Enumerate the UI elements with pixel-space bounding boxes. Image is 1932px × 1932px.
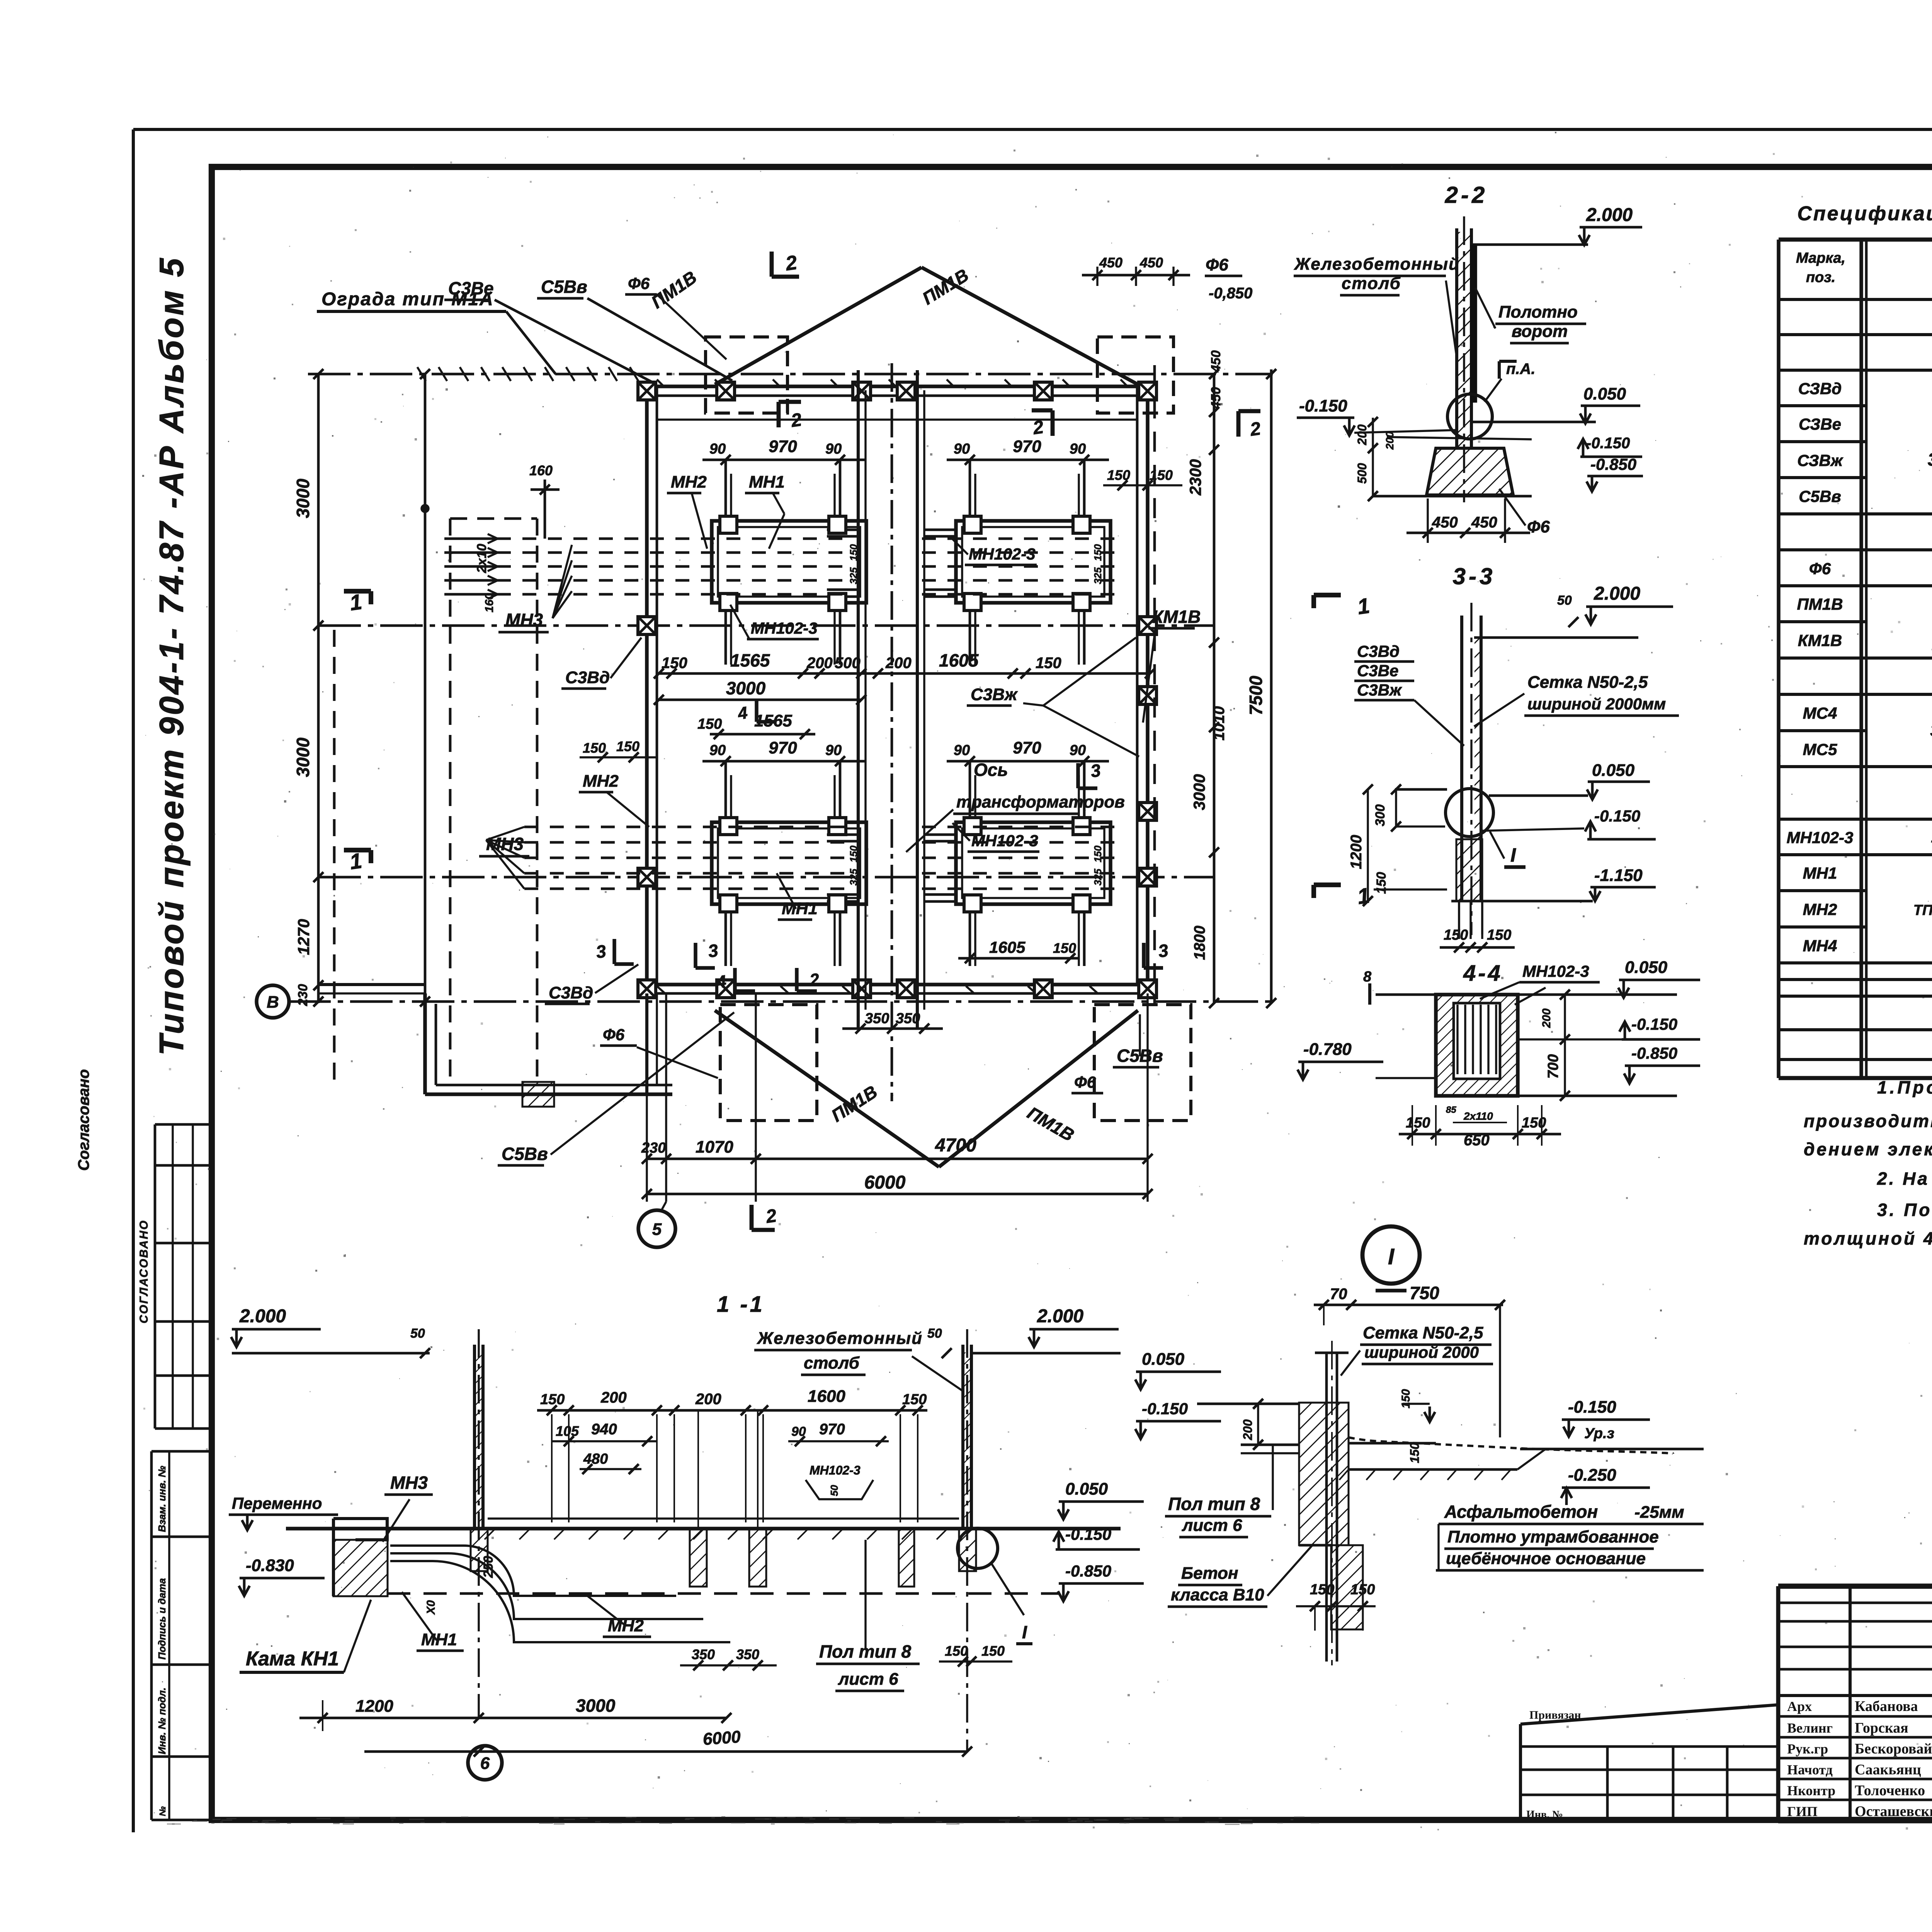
- svg-text:Толоченко: Толоченко: [1855, 1782, 1925, 1799]
- svg-text:160: 160: [529, 463, 553, 478]
- svg-text:МН2: МН2: [671, 473, 707, 492]
- svg-text:3: 3: [1157, 940, 1170, 961]
- svg-text:3000: 3000: [576, 1696, 616, 1716]
- svg-text:150: 150: [1400, 1389, 1412, 1408]
- svg-text:2: 2: [784, 251, 799, 275]
- svg-text:150: 150: [1350, 1582, 1375, 1598]
- svg-text:1: 1: [1356, 593, 1371, 619]
- svg-text:С3Ве: С3Ве: [1357, 662, 1398, 680]
- svg-text:2х10: 2х10: [474, 544, 489, 573]
- svg-text:-1.150: -1.150: [1594, 866, 1643, 885]
- svg-text:90: 90: [954, 441, 970, 457]
- svg-text:3000: 3000: [293, 478, 313, 518]
- svg-text:150: 150: [848, 544, 859, 561]
- svg-text:МН102-3: МН102-3: [1787, 828, 1854, 847]
- svg-text:200: 200: [600, 1389, 627, 1406]
- svg-text:200: 200: [1540, 1009, 1553, 1028]
- svg-text:Инв. № подл.: Инв. № подл.: [156, 1687, 168, 1754]
- svg-text:С3Вж: С3Вж: [971, 685, 1018, 704]
- svg-text:В: В: [267, 993, 279, 1012]
- svg-text:столб: столб: [804, 1354, 860, 1372]
- svg-text:350: 350: [865, 1010, 889, 1027]
- svg-text:0.050: 0.050: [1592, 761, 1635, 780]
- svg-text:1270: 1270: [294, 919, 313, 955]
- svg-text:150: 150: [1406, 1115, 1430, 1131]
- svg-text:90: 90: [1070, 742, 1086, 759]
- svg-text:Согласовано: Согласовано: [75, 1069, 92, 1171]
- svg-text:50: 50: [828, 1485, 840, 1496]
- svg-text:1010: 1010: [1211, 706, 1228, 741]
- svg-text:ПМ1В: ПМ1В: [1797, 595, 1843, 613]
- svg-text:Ф6: Ф6: [603, 1026, 625, 1044]
- svg-text:150: 150: [1444, 927, 1468, 943]
- svg-text:970: 970: [1013, 738, 1041, 757]
- svg-text:С5Вв: С5Вв: [502, 1144, 548, 1164]
- svg-text:Спецификация элементов к тр: Спецификация элементов к трансформаторно…: [1797, 202, 1932, 225]
- svg-text:940: 940: [591, 1421, 617, 1438]
- svg-text:Ось: Ось: [974, 760, 1008, 780]
- svg-text:50: 50: [1557, 593, 1572, 608]
- svg-text:класса В10: класса В10: [1171, 1585, 1264, 1604]
- svg-text:МС4: МС4: [1803, 704, 1837, 722]
- svg-text:3: 3: [707, 940, 719, 961]
- svg-text:90: 90: [825, 742, 842, 759]
- svg-text:4700: 4700: [935, 1135, 976, 1156]
- svg-text:-0.150: -0.150: [1568, 1398, 1616, 1417]
- svg-text:200: 200: [806, 655, 833, 672]
- svg-text:2.000: 2.000: [1037, 1306, 1083, 1327]
- svg-text:105: 105: [556, 1423, 579, 1439]
- svg-text:650: 650: [1464, 1132, 1490, 1149]
- svg-text:Кабанова: Кабанова: [1855, 1698, 1918, 1714]
- svg-text:Железобетонный: Железобетонный: [1294, 255, 1460, 274]
- svg-text:1565: 1565: [730, 650, 770, 670]
- svg-text:0.050: 0.050: [1142, 1350, 1185, 1369]
- svg-text:1200: 1200: [355, 1697, 393, 1716]
- svg-text:-0.830: -0.830: [246, 1556, 294, 1575]
- svg-text:Ф6: Ф6: [1206, 255, 1228, 274]
- svg-text:ГИП: ГИП: [1787, 1804, 1818, 1819]
- svg-text:-0.850: -0.850: [1590, 455, 1636, 473]
- svg-text:90: 90: [709, 441, 726, 457]
- svg-text:150: 150: [1036, 655, 1061, 672]
- svg-text:3: 3: [1089, 760, 1102, 781]
- svg-text:СЗВж: СЗВж: [1797, 451, 1844, 469]
- svg-text:970: 970: [769, 437, 797, 456]
- svg-text:МН2: МН2: [1803, 900, 1837, 918]
- svg-text:МН3: МН3: [486, 834, 524, 854]
- svg-text:С5Вв: С5Вв: [1799, 487, 1841, 505]
- svg-text:Сетка N50-2,5: Сетка N50-2,5: [1363, 1323, 1483, 1342]
- svg-text:2.000: 2.000: [1594, 583, 1640, 604]
- svg-text:6000: 6000: [702, 1727, 742, 1749]
- svg-text:970: 970: [1013, 437, 1041, 456]
- svg-text:150: 150: [1310, 1582, 1334, 1598]
- svg-text:МН102-3: МН102-3: [810, 1463, 861, 1477]
- svg-text:-25мм: -25мм: [1634, 1503, 1684, 1522]
- svg-text:МН1: МН1: [1803, 864, 1837, 882]
- svg-text:I: I: [1022, 1622, 1027, 1642]
- svg-text:350: 350: [692, 1646, 715, 1662]
- svg-text:2.000: 2.000: [1586, 205, 1633, 225]
- svg-text:ТП904-1- -ЮКИ-МН1: ТП904-1- -ЮКИ-МН1: [1913, 902, 1932, 918]
- svg-text:2-2: 2-2: [1445, 182, 1488, 208]
- svg-text:КМ1В: КМ1В: [1798, 631, 1842, 650]
- svg-text:I: I: [1388, 1244, 1395, 1269]
- svg-text:Х0: Х0: [425, 1600, 437, 1615]
- svg-text:200: 200: [885, 655, 912, 672]
- svg-text:970: 970: [769, 738, 797, 757]
- svg-text:4: 4: [736, 703, 749, 723]
- svg-text:150: 150: [1374, 872, 1389, 894]
- svg-text:480: 480: [583, 1451, 608, 1467]
- svg-text:Ф6: Ф6: [1074, 1073, 1096, 1091]
- svg-text:Кама КН1: Кама КН1: [246, 1648, 339, 1670]
- svg-text:7500: 7500: [1246, 675, 1266, 715]
- svg-text:Переменно: Переменно: [232, 1494, 322, 1512]
- svg-text:Привязан: Привязан: [1529, 1709, 1581, 1721]
- svg-text:Осташевски: Осташевски: [1855, 1803, 1932, 1820]
- svg-text:6000: 6000: [864, 1172, 906, 1193]
- svg-text:Полотно: Полотно: [1498, 303, 1578, 321]
- svg-text:230: 230: [641, 1140, 666, 1156]
- svg-text:200: 200: [1241, 1419, 1255, 1440]
- svg-text:450: 450: [1471, 514, 1497, 531]
- svg-text:3-3: 3-3: [1453, 563, 1496, 589]
- svg-text:50: 50: [927, 1326, 942, 1341]
- svg-text:200: 200: [1384, 431, 1396, 450]
- svg-text:МН2: МН2: [583, 772, 619, 791]
- svg-text:1 -1: 1 -1: [717, 1292, 765, 1317]
- svg-text:Асфальтобетон: Асфальтобетон: [1444, 1502, 1598, 1522]
- svg-text:МН1: МН1: [421, 1630, 457, 1649]
- svg-text:МН102-3: МН102-3: [751, 619, 818, 637]
- svg-text:300: 300: [1373, 804, 1388, 827]
- svg-text:90: 90: [1070, 441, 1086, 457]
- svg-text:2: 2: [764, 1206, 778, 1227]
- svg-text:150: 150: [616, 738, 639, 754]
- svg-text:МН102-3: МН102-3: [1522, 962, 1589, 980]
- svg-text:Арх: Арх: [1787, 1699, 1812, 1714]
- svg-text:1605: 1605: [989, 938, 1026, 956]
- svg-text:Ф6: Ф6: [1809, 560, 1831, 578]
- svg-text:производить в процессе бетонир: производить в процессе бетонирования при…: [1804, 1111, 1932, 1131]
- svg-text:150: 150: [848, 845, 859, 862]
- svg-text:3.017-1 вып.2: 3.017-1 вып.2: [1930, 721, 1932, 740]
- svg-text:Плотно утрамбованное: Плотно утрамбованное: [1447, 1527, 1659, 1546]
- svg-text:-0,850: -0,850: [1209, 285, 1252, 302]
- svg-text:3000: 3000: [1190, 774, 1208, 810]
- svg-text:350: 350: [896, 1010, 920, 1027]
- svg-text:Типовой проект 904-1- 74.87: Типовой проект 904-1- 74.87 -АР Альбом 5: [152, 256, 190, 1056]
- svg-text:350: 350: [736, 1646, 759, 1662]
- svg-text:450: 450: [1209, 387, 1223, 410]
- svg-text:С3Вд: С3Вд: [1357, 642, 1400, 660]
- svg-text:50: 50: [410, 1326, 425, 1341]
- svg-text:1070: 1070: [696, 1138, 733, 1156]
- svg-text:150: 150: [697, 716, 722, 732]
- svg-text:150: 150: [1150, 467, 1173, 483]
- svg-text:500: 500: [835, 655, 861, 672]
- svg-text:200: 200: [1355, 424, 1369, 446]
- svg-text:2.000: 2.000: [239, 1306, 286, 1327]
- svg-text:150: 150: [583, 740, 606, 756]
- svg-text:150: 150: [662, 655, 687, 672]
- svg-text:150: 150: [1053, 940, 1076, 956]
- svg-text:450: 450: [1432, 514, 1458, 531]
- svg-text:Инв. №: Инв. №: [1526, 1809, 1563, 1821]
- svg-text:6: 6: [480, 1754, 490, 1773]
- svg-text:Пол тип 8: Пол тип 8: [1168, 1494, 1260, 1514]
- svg-text:700: 700: [1545, 1054, 1561, 1078]
- svg-text:1800: 1800: [1191, 926, 1208, 960]
- svg-text:150: 150: [540, 1391, 565, 1408]
- svg-text:1200: 1200: [1348, 835, 1365, 869]
- svg-text:столб: столб: [1342, 274, 1401, 293]
- svg-text:325: 325: [848, 567, 859, 584]
- svg-text:150: 150: [945, 1643, 968, 1659]
- svg-text:325: 325: [848, 869, 859, 886]
- svg-text:-0.780: -0.780: [1303, 1040, 1352, 1059]
- svg-text:0.050: 0.050: [1625, 958, 1668, 977]
- svg-text:шириной 2000мм: шириной 2000мм: [1527, 695, 1666, 713]
- svg-text:90: 90: [709, 742, 726, 759]
- svg-text:-0.150: -0.150: [1299, 396, 1347, 415]
- svg-text:2300: 2300: [1186, 459, 1204, 495]
- svg-text:С3Вд: С3Вд: [565, 668, 610, 687]
- svg-text:230: 230: [296, 984, 310, 1007]
- svg-text:МН102-3: МН102-3: [971, 832, 1038, 850]
- svg-text:970: 970: [819, 1421, 845, 1438]
- svg-text:МН1: МН1: [749, 473, 785, 492]
- svg-text:Марка,: Марка,: [1796, 250, 1845, 266]
- svg-text:Начотд: Начотд: [1787, 1762, 1833, 1777]
- svg-text:90: 90: [825, 441, 842, 457]
- svg-text:150: 150: [1408, 1442, 1422, 1463]
- svg-text:-0.150: -0.150: [1586, 435, 1630, 452]
- svg-text:70: 70: [1330, 1286, 1347, 1303]
- svg-text:ПМ1В: ПМ1В: [1024, 1103, 1078, 1145]
- svg-text:лист 6: лист 6: [838, 1670, 898, 1689]
- svg-text:3: 3: [595, 941, 607, 962]
- svg-text:лист 6: лист 6: [1182, 1516, 1242, 1535]
- svg-text:поз.: поз.: [1806, 269, 1835, 286]
- svg-text:-0.150: -0.150: [1631, 1015, 1677, 1033]
- svg-text:Нконтр: Нконтр: [1787, 1783, 1835, 1798]
- svg-text:Бескоровай: Бескоровай: [1855, 1741, 1932, 1757]
- svg-text:3.017-1 вып.1: 3.017-1 вып.1: [1928, 449, 1932, 469]
- svg-text:толщиной 40мм, втрамбованного: толщиной 40мм, втрамбованного в грунт.: [1804, 1228, 1932, 1248]
- svg-text:Велинг: Велинг: [1787, 1720, 1833, 1736]
- svg-text:Железобетонный: Железобетонный: [757, 1329, 923, 1348]
- svg-text:3000: 3000: [293, 737, 313, 777]
- svg-text:I: I: [1510, 844, 1516, 866]
- svg-text:2. На концах труб поставить де: 2. На концах труб поставить деревянные п…: [1877, 1168, 1932, 1189]
- svg-text:2: 2: [808, 970, 821, 990]
- svg-text:-0.150: -0.150: [1594, 807, 1640, 825]
- svg-text:СЗВе: СЗВе: [1799, 415, 1841, 433]
- svg-text:щебёночное основание: щебёночное основание: [1446, 1549, 1646, 1568]
- svg-text:1.Прокладку труб для электроте: 1.Прокладку труб для электротехнических …: [1877, 1077, 1932, 1097]
- svg-text:СЗВд: СЗВд: [1798, 379, 1842, 398]
- svg-text:МС5: МС5: [1803, 740, 1837, 759]
- svg-text:450: 450: [1099, 255, 1122, 270]
- svg-text:Саакьянц: Саакьянц: [1855, 1762, 1921, 1778]
- svg-text:МН102-3: МН102-3: [969, 545, 1036, 563]
- svg-text:8: 8: [1363, 969, 1372, 985]
- svg-text:90: 90: [954, 742, 970, 759]
- svg-text:450: 450: [1139, 255, 1163, 270]
- svg-text:п.А.: п.А.: [1506, 361, 1536, 378]
- svg-text:4-4: 4-4: [1463, 961, 1503, 986]
- svg-text:С3Ве: С3Ве: [448, 278, 494, 298]
- svg-text:150: 150: [1092, 845, 1104, 862]
- svg-text:1605: 1605: [939, 650, 979, 670]
- svg-text:С5Вв: С5Вв: [541, 277, 587, 297]
- svg-text:№: №: [158, 1806, 167, 1816]
- svg-text:Ф6: Ф6: [628, 274, 650, 293]
- svg-text:85: 85: [1446, 1105, 1456, 1115]
- svg-text:150: 150: [902, 1391, 927, 1408]
- svg-text:3000: 3000: [726, 678, 766, 698]
- svg-text:СОГЛАСОВАНО: СОГЛАСОВАНО: [138, 1219, 150, 1323]
- svg-text:450: 450: [1209, 350, 1223, 373]
- svg-text:МН4: МН4: [1803, 937, 1837, 955]
- svg-text:160: 160: [483, 593, 496, 612]
- svg-text:КМ1В: КМ1В: [1152, 607, 1201, 627]
- svg-text:5: 5: [652, 1220, 662, 1239]
- svg-text:0.050: 0.050: [1583, 384, 1626, 403]
- svg-text:С3Вж: С3Вж: [1357, 681, 1402, 699]
- svg-text:-0.850: -0.850: [1631, 1044, 1677, 1062]
- svg-text:-0.150: -0.150: [1142, 1400, 1188, 1418]
- svg-text:500: 500: [1355, 463, 1369, 484]
- svg-text:Горская: Горская: [1855, 1720, 1908, 1736]
- svg-text:Взам. инв. №: Взам. инв. №: [156, 1466, 168, 1532]
- svg-text:МН1: МН1: [782, 899, 818, 918]
- svg-text:0.050: 0.050: [1065, 1480, 1108, 1498]
- svg-text:2: 2: [1248, 418, 1262, 440]
- svg-text:Рук.гр: Рук.гр: [1787, 1741, 1828, 1757]
- svg-text:Ур.з: Ур.з: [1584, 1425, 1614, 1442]
- svg-text:1600: 1600: [808, 1387, 845, 1406]
- svg-text:С3Вд: С3Вд: [549, 983, 593, 1002]
- svg-text:МН3: МН3: [390, 1473, 428, 1493]
- svg-text:МН3: МН3: [505, 610, 543, 630]
- svg-text:Бетон: Бетон: [1181, 1564, 1238, 1583]
- svg-text:150: 150: [1522, 1115, 1546, 1131]
- svg-text:Сетка N50-2,5: Сетка N50-2,5: [1527, 673, 1648, 692]
- svg-text:-0.150: -0.150: [1065, 1525, 1111, 1543]
- svg-text:Ф6: Ф6: [1527, 517, 1550, 536]
- svg-text:Подпись и дата: Подпись и дата: [156, 1578, 168, 1660]
- svg-text:200: 200: [695, 1391, 721, 1408]
- svg-text:трансформаторов: трансформаторов: [956, 793, 1125, 811]
- svg-text:дением электриков.: дением электриков.: [1804, 1139, 1932, 1159]
- svg-text:150: 150: [1487, 927, 1511, 943]
- svg-text:2: 2: [789, 410, 803, 431]
- svg-text:ПМ1В: ПМ1В: [648, 267, 700, 312]
- svg-text:шириной 2000: шириной 2000: [1364, 1343, 1479, 1361]
- svg-text:2х110: 2х110: [1463, 1110, 1493, 1122]
- svg-text:-0.850: -0.850: [1065, 1562, 1111, 1580]
- svg-text:-0.250: -0.250: [1568, 1466, 1616, 1485]
- svg-text:750: 750: [1410, 1283, 1439, 1303]
- svg-text:250: 250: [481, 1556, 496, 1578]
- svg-text:325: 325: [1092, 869, 1104, 886]
- svg-text:150: 150: [981, 1643, 1005, 1659]
- svg-text:3. Подготовку под бетонные сте: 3. Подготовку под бетонные стенки выполн…: [1877, 1200, 1932, 1220]
